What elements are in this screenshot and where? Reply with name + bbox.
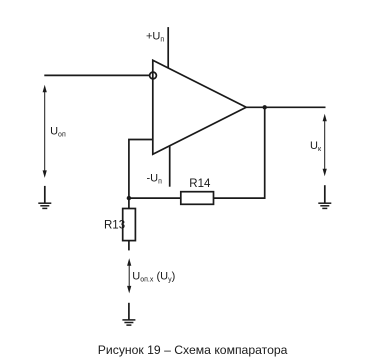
node: junction dot at output xyxy=(263,105,267,109)
dimension arrow Uop.x (bottom) xyxy=(127,258,131,293)
op-amp U1 triangle xyxy=(153,60,246,154)
node: input terminal circle on + input xyxy=(150,72,157,79)
wire: output horizontal xyxy=(246,106,325,108)
ground (left) xyxy=(38,186,51,209)
wire: non-inverting input horizontal xyxy=(44,74,149,76)
wire: R14 right to output branch (up to output node) xyxy=(214,107,265,198)
ground (right) xyxy=(318,185,331,208)
svg-text:Рисунок 19 – Схема компаратора: Рисунок 19 – Схема компаратора xyxy=(98,343,288,357)
svg-text:R13: R13 xyxy=(104,219,125,231)
wire: +Up supply stub xyxy=(167,27,169,68)
dimension arrow Uk (right) xyxy=(323,114,327,177)
wire: inverting input (horizontal + vertical down to junction) xyxy=(129,140,153,209)
wire: junction to R14 left xyxy=(129,197,181,199)
svg-text:R14: R14 xyxy=(189,178,211,190)
wire: -Up supply stub xyxy=(169,146,171,187)
dimension arrow Uop (left) xyxy=(43,85,47,178)
node: junction dot at inverting net xyxy=(127,196,131,200)
resistor R14 xyxy=(181,192,214,205)
resistor R13 xyxy=(123,209,136,241)
ground (bottom) xyxy=(122,303,135,325)
wire: R13 bottom stub xyxy=(128,241,130,251)
